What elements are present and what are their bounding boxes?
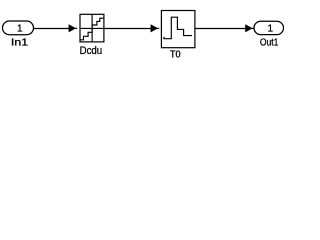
arrowhead into T0: [151, 25, 158, 32]
block Dcdu (quantizer) body: [80, 14, 104, 42]
wire T0 to Out1: [195, 28, 246, 30]
background: [0, 0, 289, 63]
svg-text:1: 1: [268, 24, 274, 35]
wire In1 to Dcdu: [34, 28, 70, 30]
Dcdu icon quantizer staircase: [80, 18, 103, 40]
svg-text:T0: T0: [170, 50, 181, 61]
inport In1 oval: [3, 21, 34, 35]
Dcdu icon horizontal axis: [81, 27, 104, 29]
svg-text:Dcdu: Dcdu: [80, 45, 103, 57]
arrowhead into Dcdu: [69, 25, 76, 32]
outport Out1 oval: [254, 21, 284, 34]
svg-text:Out1: Out1: [260, 37, 279, 49]
T0 icon pulse waveform: [164, 17, 192, 39]
svg-text:1: 1: [17, 24, 23, 35]
wire stub at Out1 input: [252, 27, 254, 29]
wire stub at T0 input: [157, 27, 159, 29]
Dcdu icon vertical axis: [91, 15, 93, 42]
svg-text:In1: In1: [11, 38, 29, 49]
block T0 body: [161, 11, 195, 48]
wire stub at Dcdu input: [75, 27, 77, 29]
arrowhead into Out1: [246, 25, 253, 32]
wire Dcdu to T0: [104, 28, 151, 30]
